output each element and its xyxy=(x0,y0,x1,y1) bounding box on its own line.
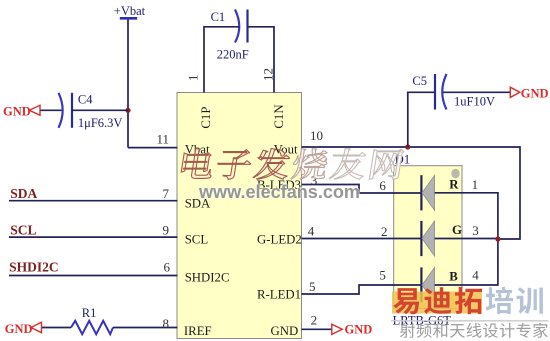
wire D1 common vertical xyxy=(497,192,499,286)
svg-text:8: 8 xyxy=(163,316,170,331)
svg-text:1μF6.3V: 1μF6.3V xyxy=(78,116,123,130)
svg-text:220nF: 220nF xyxy=(217,48,249,62)
svg-text:R-LED1: R-LED1 xyxy=(257,288,301,302)
wire SHDI2C pin 6 xyxy=(9,275,178,277)
svg-text:IREF: IREF xyxy=(184,324,212,338)
wire pin 4 G-LED2 to D1 pin 2 xyxy=(302,238,422,240)
svg-text:C1N: C1N xyxy=(272,104,286,128)
LED G in D1 xyxy=(421,221,462,256)
svg-text:B: B xyxy=(449,270,458,284)
svg-text:Vout: Vout xyxy=(274,143,298,157)
svg-text:+Vbat: +Vbat xyxy=(114,4,146,18)
svg-text:6: 6 xyxy=(379,178,386,193)
svg-text:12: 12 xyxy=(261,68,276,81)
LED package D1 body xyxy=(393,153,462,328)
capacitor C1 220nF xyxy=(211,10,249,62)
svg-text:SDA: SDA xyxy=(10,186,37,201)
watermark blob xyxy=(451,169,459,179)
svg-text:GND: GND xyxy=(345,323,373,337)
wire D1 G cathode right xyxy=(435,238,498,240)
wire SCL pin 9 xyxy=(9,236,178,238)
svg-text:C1: C1 xyxy=(211,10,226,24)
svg-text:G: G xyxy=(452,223,462,237)
svg-text:GND: GND xyxy=(271,324,299,338)
svg-text:GND: GND xyxy=(5,322,33,336)
svg-text:5: 5 xyxy=(379,268,386,283)
svg-text:1uF10V: 1uF10V xyxy=(454,95,495,109)
wire Vbat vertical xyxy=(127,20,129,148)
wire pin 5 R-LED1 to D1 pin 5 xyxy=(302,285,422,294)
wire pin 2 GND xyxy=(302,328,332,330)
wire C4 to junction xyxy=(72,109,128,111)
svg-text:9: 9 xyxy=(163,222,170,237)
capacitor C4 1uF6.3V xyxy=(59,92,123,130)
svg-text:SCL: SCL xyxy=(185,233,209,247)
svg-text:1: 1 xyxy=(472,177,479,192)
wire C5 to GND xyxy=(443,91,510,93)
LED R in D1 xyxy=(421,175,459,210)
svg-text:4: 4 xyxy=(472,268,479,283)
svg-text:6: 6 xyxy=(164,260,171,275)
wire C5 branch xyxy=(408,92,435,147)
wire SDA pin 7 xyxy=(9,200,178,202)
svg-text:GND: GND xyxy=(3,105,31,119)
svg-text:10: 10 xyxy=(310,128,323,143)
wire GND to R1 xyxy=(42,327,71,329)
wire C1 left to pin 1 xyxy=(204,27,240,93)
watermark elecfans chinese xyxy=(181,149,404,180)
svg-text:C4: C4 xyxy=(78,92,93,106)
node junction Vbat/C4 xyxy=(125,108,130,113)
svg-text:R: R xyxy=(449,178,459,192)
power +Vbat xyxy=(114,4,146,18)
ground GND at pin 2 xyxy=(332,323,372,337)
ground GND left of R1 xyxy=(5,322,42,336)
ground GND left of C4 xyxy=(3,105,40,119)
svg-text:SHDI2C: SHDI2C xyxy=(185,271,230,285)
wire D1 B cathode right xyxy=(435,284,498,286)
svg-text:C5: C5 xyxy=(412,74,427,88)
LED B in D1 xyxy=(421,267,458,302)
wire GND to C4 xyxy=(41,109,63,111)
svg-text:3: 3 xyxy=(472,223,479,238)
svg-text:SHDI2C: SHDI2C xyxy=(9,260,59,275)
ground GND right of C5 xyxy=(510,87,548,101)
svg-text:4: 4 xyxy=(308,223,315,238)
svg-text:2: 2 xyxy=(311,313,318,328)
svg-text:R1: R1 xyxy=(82,306,97,320)
svg-text:GND: GND xyxy=(521,87,549,101)
watermark rf slogan xyxy=(391,321,549,338)
wire C1 right to pin 12 xyxy=(248,27,275,93)
IC U1 LED-driver body with pin names xyxy=(177,93,302,339)
svg-text:1: 1 xyxy=(186,75,201,82)
svg-text:5: 5 xyxy=(309,279,316,294)
node junction Vout/C5 xyxy=(405,144,410,149)
capacitor C5 1uF10V xyxy=(412,74,495,110)
svg-text:G-LED2: G-LED2 xyxy=(257,233,302,247)
wire pin 10 Vout to D1 common xyxy=(302,147,521,239)
node junction D1 common xyxy=(495,236,500,241)
svg-text:7: 7 xyxy=(163,186,170,201)
svg-text:www.elecfans.com: www.elecfans.com xyxy=(198,181,360,202)
wire D1 R cathode right xyxy=(435,192,498,194)
wire R1 to pin 8 xyxy=(113,327,178,329)
svg-text:C1P: C1P xyxy=(199,107,213,129)
wire pin 11 Vbat xyxy=(128,147,178,149)
svg-text:2: 2 xyxy=(381,224,388,239)
watermark training site xyxy=(392,287,543,315)
svg-text:SCL: SCL xyxy=(10,222,36,237)
resistor R1 xyxy=(71,306,113,334)
svg-text:11: 11 xyxy=(156,132,169,147)
wire pin 3 B-LED3 to D1 pin 6 xyxy=(302,185,422,194)
